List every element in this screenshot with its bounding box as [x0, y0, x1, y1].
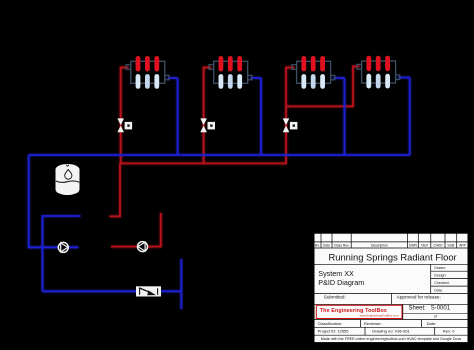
svg-text:Sheet:: Sheet: — [409, 306, 427, 312]
wire: red boiler supply line with pump branch — [111, 213, 161, 247]
wire: blue drop 2 — [260, 78, 262, 155]
zone valve V1 — [117, 118, 132, 132]
balancing valve — [136, 286, 161, 296]
zone valve V2 — [200, 118, 215, 132]
svg-text:VER: VER — [421, 243, 428, 247]
wire: red riser 1 — [120, 67, 122, 165]
svg-text:System XX: System XX — [318, 269, 354, 278]
wire: blue return stub from radiator HX2 — [250, 77, 261, 79]
svg-text:Running Springs Radiant Floor: Running Springs Radiant Floor — [328, 251, 456, 262]
classification row — [314, 320, 468, 328]
wire: blue right riser stub — [180, 259, 182, 309]
svg-text:Design:: Design: — [434, 273, 446, 277]
svg-text:APP: APP — [459, 243, 466, 247]
svg-text:Project ID: 12555: Project ID: 12555 — [318, 329, 350, 334]
wire: red drop from manifold to boiler stub — [110, 163, 121, 216]
submitted / approved row — [314, 294, 468, 305]
radiator HX1 — [126, 56, 169, 89]
wire: blue return manifold — [29, 154, 410, 156]
wire: blue drop 1 — [177, 78, 179, 155]
svg-text:Description: Description — [371, 243, 388, 247]
radiator HX4 — [357, 56, 400, 89]
svg-text:Class Rev.: Class Rev. — [334, 243, 350, 247]
pump P1 — [58, 242, 68, 252]
svg-text:Date:: Date: — [434, 288, 443, 292]
title block — [314, 233, 468, 342]
wire: red supply manifold — [120, 162, 286, 164]
svg-text:Rev: 0: Rev: 0 — [443, 329, 455, 334]
svg-text:Drawing no: V36-901: Drawing no: V36-901 — [372, 329, 410, 334]
wire: blue drop 3 — [344, 78, 346, 155]
svg-text:Submitted:: Submitted: — [324, 295, 346, 300]
wire: blue drop 4 — [409, 78, 411, 156]
svg-text:Checked:: Checked: — [434, 281, 449, 285]
wire: blue return stub from radiator HX1 — [168, 77, 178, 79]
wire: red riser 3 — [285, 67, 287, 165]
svg-text:P&ID Diagram: P&ID Diagram — [318, 278, 364, 287]
svg-text:Drawn:: Drawn: — [434, 266, 445, 270]
revision table grid — [314, 242, 468, 248]
wire: blue expansion-tank branch — [43, 216, 81, 291]
project title — [314, 263, 468, 265]
svg-text:of: of — [434, 314, 437, 318]
svg-text:Made with the FREE online engi: Made with the FREE online engineeringtoo… — [321, 337, 462, 341]
pump P2 — [138, 242, 148, 252]
wire: red supply stub to radiator HX2 — [204, 67, 212, 69]
svg-text:www.EngineeringToolBox.com: www.EngineeringToolBox.com — [360, 313, 399, 317]
wire: red supply stub to radiator HX1 — [121, 67, 129, 69]
svg-text:Classification:: Classification: — [318, 321, 343, 326]
svg-text:Approved for release:: Approved for release: — [397, 295, 441, 300]
svg-text:S-0001: S-0001 — [431, 306, 451, 312]
wire: red riser 2 — [203, 67, 205, 165]
wire: blue return stub from radiator HX3 — [333, 77, 344, 79]
wire: red supply stub to radiator HX3 — [286, 67, 294, 69]
radiator HX3 — [292, 56, 335, 89]
wire: blue left downcomer — [29, 155, 79, 247]
wire: blue bottom run — [43, 290, 182, 292]
svg-text:Date: Date — [323, 243, 330, 247]
expansion tank — [56, 164, 80, 195]
radiator HX2 — [209, 56, 252, 89]
drawn/design/checked/date boxes — [431, 264, 468, 293]
svg-text:Reviewer:: Reviewer: — [364, 321, 382, 326]
svg-text:No.: No. — [315, 243, 320, 247]
wire: blue return stub from radiator HX4 — [398, 77, 409, 79]
svg-text:DWN: DWN — [409, 243, 417, 247]
svg-text:SUB: SUB — [447, 243, 455, 247]
svg-text:Date:: Date: — [427, 321, 437, 326]
svg-text:CHKD: CHKD — [433, 243, 443, 247]
zone valve V3 — [283, 118, 298, 132]
wire: red branch to radiator HX4 — [286, 66, 360, 106]
logo / sheet row — [314, 304, 468, 319]
footer note row — [314, 334, 468, 336]
project id row — [314, 327, 468, 335]
